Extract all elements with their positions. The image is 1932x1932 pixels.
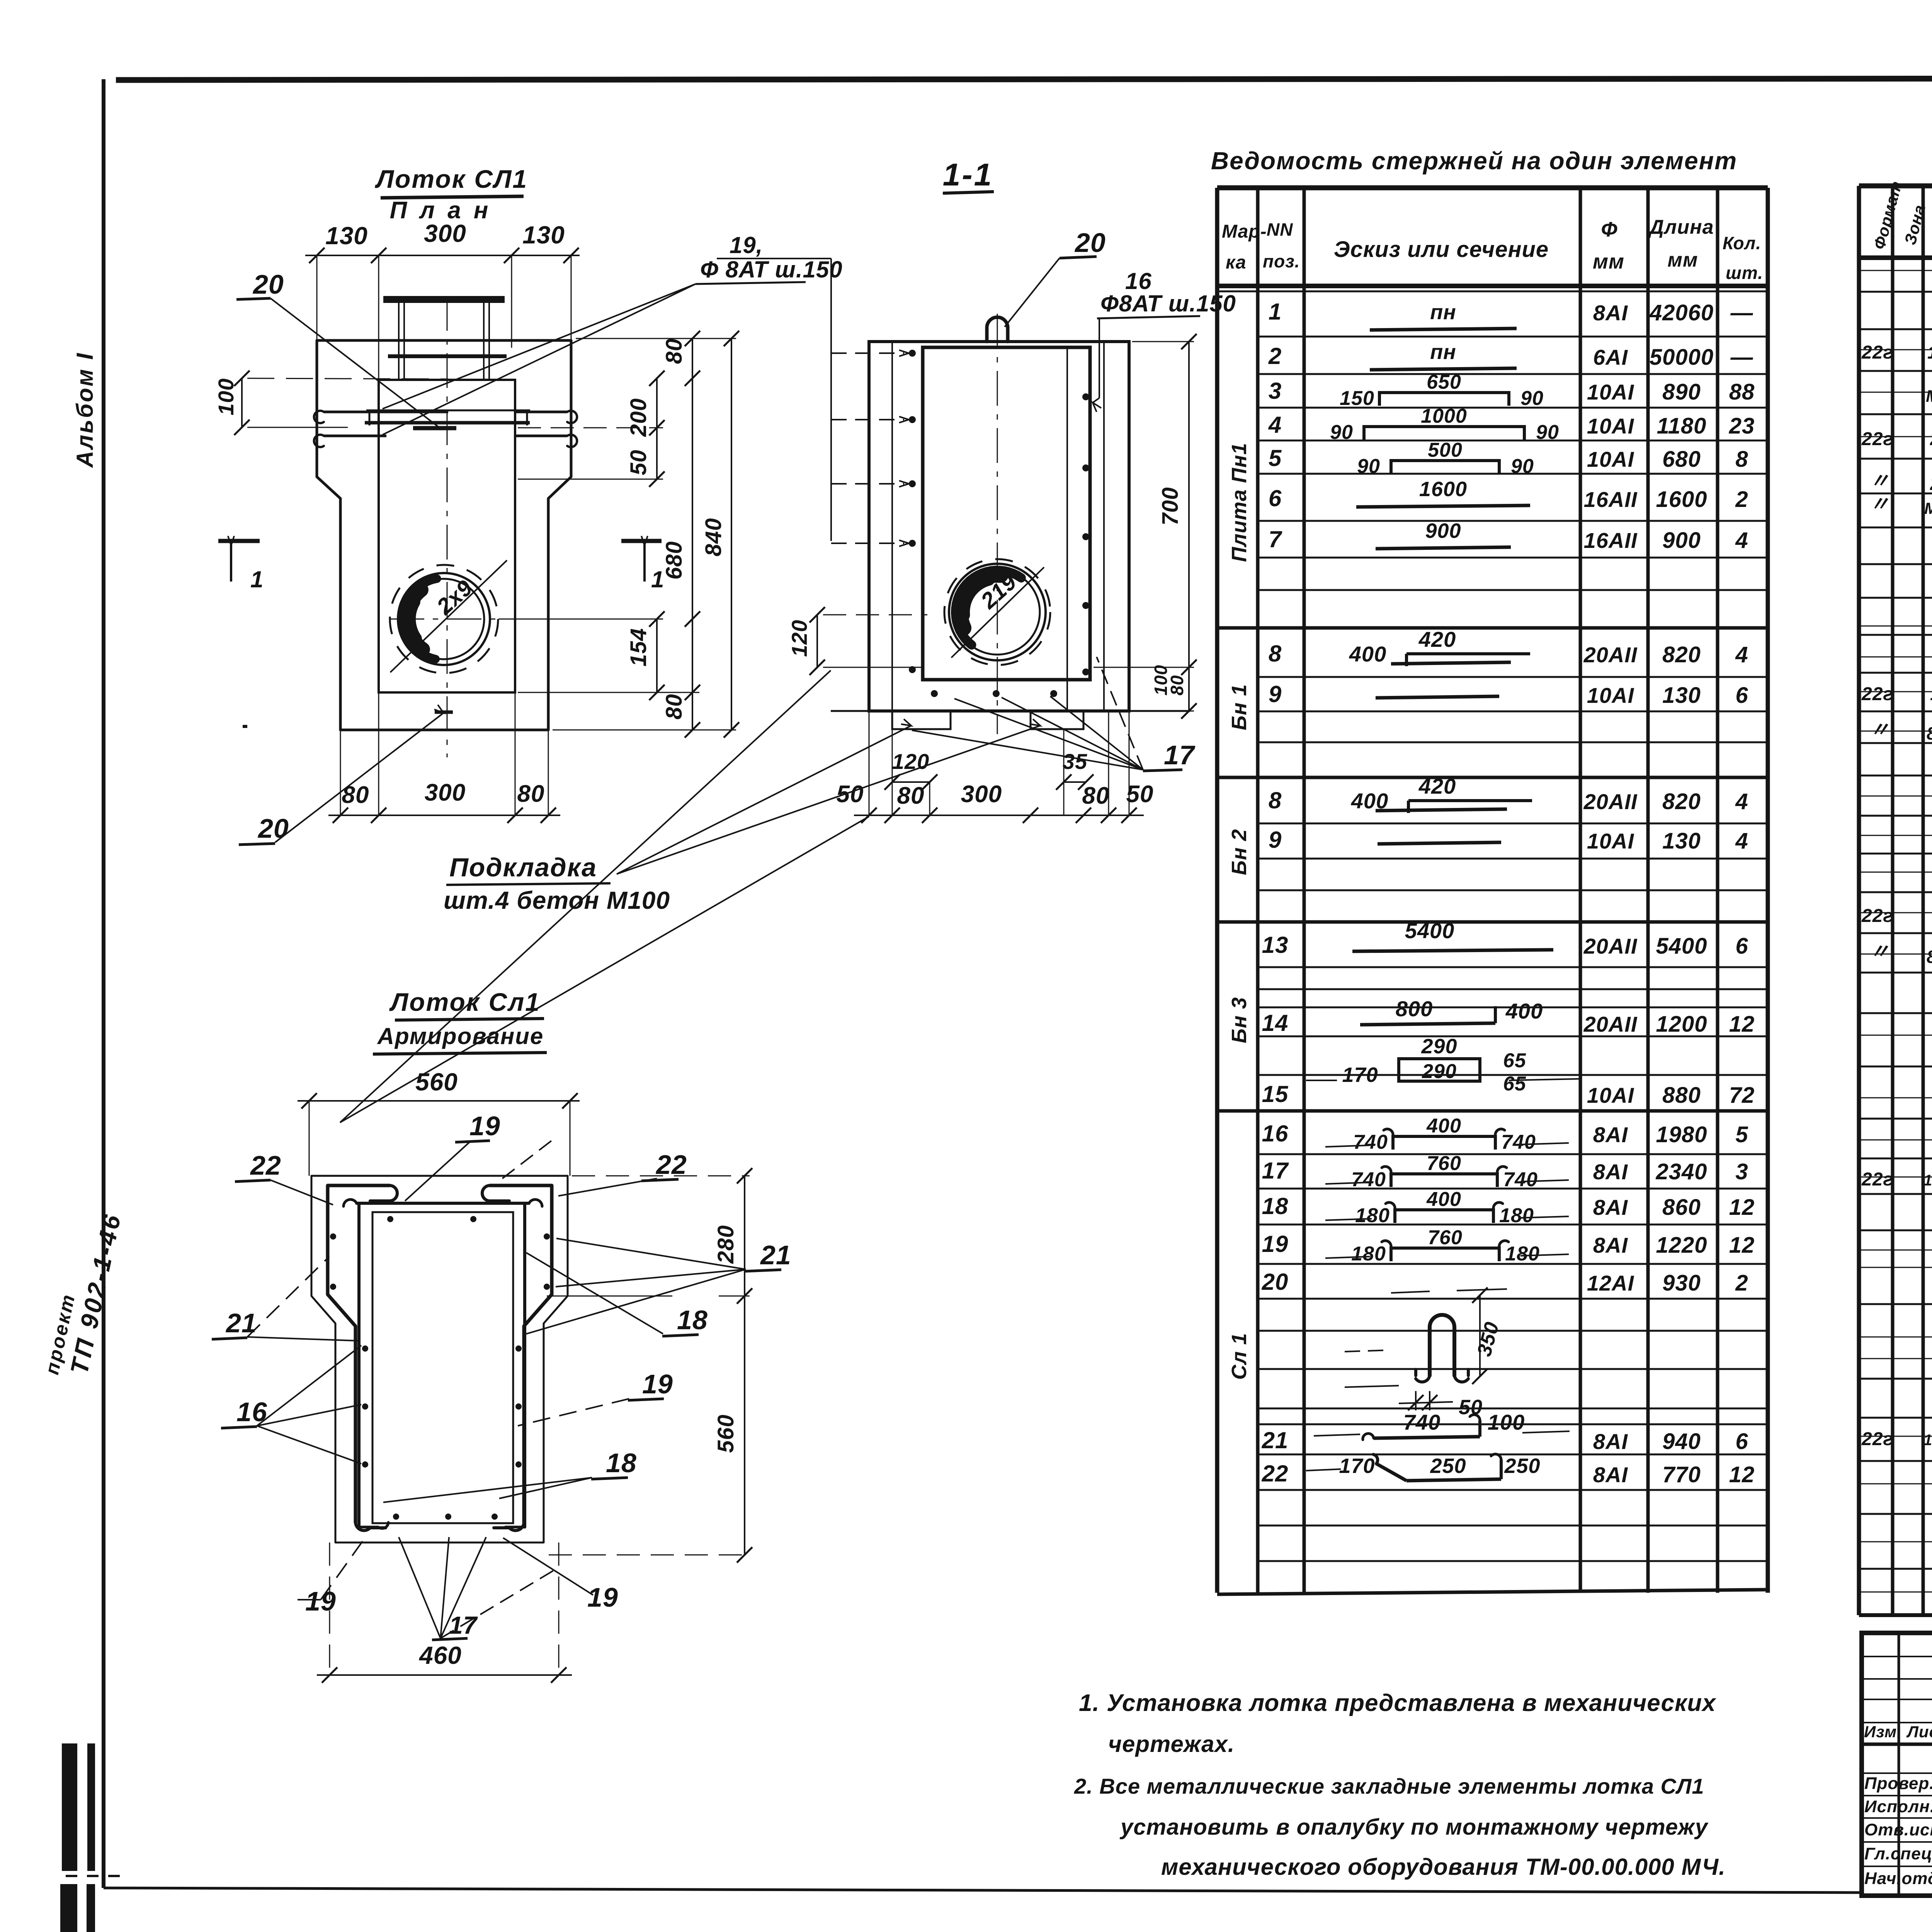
svg-text:18: 18 xyxy=(677,1305,708,1335)
svg-text:80: 80 xyxy=(662,694,687,719)
svg-text:12: 12 xyxy=(1729,1012,1755,1037)
svg-text:8АI: 8АI xyxy=(1593,1122,1628,1147)
svg-text:Плита Пн1: Плита Пн1 xyxy=(1228,443,1251,562)
svg-text:22г: 22г xyxy=(1861,429,1893,449)
svg-text:65: 65 xyxy=(1503,1073,1526,1095)
svg-text:22г: 22г xyxy=(1861,684,1893,704)
svg-text:90: 90 xyxy=(1536,421,1559,444)
svg-text:1600: 1600 xyxy=(1656,487,1707,512)
armature inner formwork rectangle xyxy=(372,1212,513,1523)
plan vertical centerline xyxy=(447,296,448,757)
svg-text:150: 150 xyxy=(1340,387,1374,410)
svg-text:5400: 5400 xyxy=(1656,934,1707,959)
svg-text:130: 130 xyxy=(1662,683,1701,708)
armature inner U-bar xyxy=(357,1202,529,1205)
svg-text:Ведомость стержней на один эле: Ведомость стержней на один элемент xyxy=(1211,147,1737,175)
plan opening horizontal centerline xyxy=(389,619,626,620)
svg-text:—: — xyxy=(1730,345,1753,370)
svg-text:80: 80 xyxy=(517,781,545,807)
left margin binding artifact marks xyxy=(62,1743,77,1871)
plan bracket legs xyxy=(398,303,400,380)
section right dim 700 xyxy=(1188,342,1190,667)
svg-text:930: 930 xyxy=(1662,1270,1701,1296)
svg-text:700: 700 xyxy=(1158,487,1183,526)
section left wall thin line xyxy=(891,342,893,711)
svg-text:Нач.отд.: Нач.отд. xyxy=(1864,1869,1932,1888)
svg-text:800: 800 xyxy=(1396,997,1433,1021)
svg-text:290: 290 xyxy=(1422,1060,1457,1083)
svg-text:420: 420 xyxy=(1418,774,1456,798)
bar schedule outer and column lines xyxy=(1217,185,1768,190)
svg-text:740: 740 xyxy=(1353,1131,1388,1153)
plan right rebar hooks xyxy=(515,411,567,413)
svg-text:20: 20 xyxy=(252,269,284,299)
svg-text:поз.: поз. xyxy=(1263,251,1300,271)
svg-text:20АII: 20АII xyxy=(1583,789,1638,814)
svg-text:19: 19 xyxy=(587,1582,618,1612)
svg-text:22: 22 xyxy=(655,1150,687,1180)
svg-text:2340: 2340 xyxy=(1655,1159,1707,1184)
svg-text:1: 1 xyxy=(1269,299,1282,325)
svg-text:10АI: 10АI xyxy=(1587,380,1634,404)
section bottom dimension 50-80-300-80-50 xyxy=(854,815,1144,816)
svg-text:560: 560 xyxy=(713,1414,738,1453)
svg-text:8АI: 8АI xyxy=(1593,1160,1628,1184)
svg-text:〃: 〃 xyxy=(1869,940,1890,963)
svg-text:пн: пн xyxy=(1430,301,1456,324)
armature outer U-bar right xyxy=(490,1185,552,1522)
svg-text:6: 6 xyxy=(1735,683,1748,708)
svg-text:МН14: МН14 xyxy=(1924,499,1932,517)
svg-text:мм: мм xyxy=(1593,250,1624,273)
svg-text:9: 9 xyxy=(1269,681,1282,707)
svg-text:100: 100 xyxy=(214,378,238,415)
svg-text:шт.4 бетон М100: шт.4 бетон М100 xyxy=(444,886,670,914)
svg-text:35: 35 xyxy=(1063,749,1087,774)
svg-text:400: 400 xyxy=(1505,999,1543,1023)
svg-text:80: 80 xyxy=(342,782,369,808)
plan far right dim 840 xyxy=(731,338,732,730)
svg-text:50000: 50000 xyxy=(1650,345,1714,370)
title block header row line xyxy=(1862,1743,1932,1746)
svg-text:18: 18 xyxy=(1262,1193,1289,1219)
svg-text:Бн 2: Бн 2 xyxy=(1228,829,1251,875)
svg-text:900: 900 xyxy=(1425,519,1461,543)
svg-text:16: 16 xyxy=(236,1397,267,1427)
svg-text:9: 9 xyxy=(1269,827,1282,853)
plan top dimension extension lines xyxy=(316,255,318,340)
plan section mark 1 right xyxy=(621,539,662,543)
svg-text:20: 20 xyxy=(1262,1269,1289,1295)
svg-text:10АI: 10АI xyxy=(1587,447,1634,471)
svg-text:Эскиз или сечение: Эскиз или сечение xyxy=(1334,237,1549,262)
svg-text:460: 460 xyxy=(418,1641,462,1669)
svg-text:280: 280 xyxy=(713,1225,738,1264)
svg-text:180: 180 xyxy=(1351,1243,1386,1265)
plan right dim chain 80-680-80 xyxy=(692,338,693,730)
svg-text:10АI: 10АI xyxy=(1587,414,1634,438)
svg-text:300: 300 xyxy=(961,781,1002,808)
section dim 120 left xyxy=(816,615,818,667)
svg-text:1180: 1180 xyxy=(1657,413,1707,439)
svg-text:8АI: 8АI xyxy=(1593,301,1628,325)
svg-text:400: 400 xyxy=(1426,1115,1461,1137)
plan right dim chain 154 xyxy=(656,619,658,692)
svg-text:420: 420 xyxy=(1418,627,1456,651)
svg-text:3: 3 xyxy=(1269,378,1282,404)
svg-text:80: 80 xyxy=(1167,675,1187,696)
svg-text:22г: 22г xyxy=(1861,906,1893,926)
svg-text:Армирование: Армирование xyxy=(377,1023,544,1049)
section right dims 100 80 xyxy=(1188,667,1190,711)
svg-text:Бн 1: Бн 1 xyxy=(1228,684,1251,730)
svg-text:4: 4 xyxy=(1735,642,1748,667)
svg-text:120: 120 xyxy=(787,620,811,657)
plan section mark 1 left xyxy=(218,539,260,543)
specification table outer and columns xyxy=(1859,184,1932,189)
plan outer body outline xyxy=(317,340,571,730)
svg-text:740: 740 xyxy=(1501,1131,1536,1153)
svg-text:13: 13 xyxy=(1262,932,1289,958)
svg-text:20: 20 xyxy=(1074,228,1106,258)
svg-text:8,9: 8,9 xyxy=(1927,723,1932,743)
svg-text:170: 170 xyxy=(1342,1063,1378,1087)
section opening dashed circle xyxy=(944,559,1050,665)
svg-text:2: 2 xyxy=(1268,343,1282,369)
svg-text:12: 12 xyxy=(1729,1462,1755,1487)
armature bottom hooks xyxy=(355,1522,386,1531)
svg-text:18: 18 xyxy=(606,1448,637,1478)
svg-text:22: 22 xyxy=(1262,1461,1289,1486)
svg-text:500: 500 xyxy=(1428,439,1463,461)
svg-text:900: 900 xyxy=(1662,528,1701,553)
svg-text:20АII: 20АII xyxy=(1583,1012,1638,1036)
svg-text:8: 8 xyxy=(1735,447,1748,472)
armature rebar dots xyxy=(330,1233,336,1240)
svg-text:20: 20 xyxy=(257,813,289,844)
svg-text:механического оборудования ТМ-: механического оборудования ТМ-00.00.000 … xyxy=(1161,1854,1726,1880)
specification table extra sub-row lines xyxy=(1859,270,1932,271)
svg-text:установить в опалубку по монта: установить в опалубку по монтажному черт… xyxy=(1119,1815,1709,1840)
svg-text:1: 1 xyxy=(250,566,264,592)
svg-text:Сл 1: Сл 1 xyxy=(1228,1333,1251,1380)
svg-text:1-1: 1-1 xyxy=(943,157,993,192)
svg-text:16: 16 xyxy=(1262,1121,1289,1146)
svg-text:19: 19 xyxy=(1262,1231,1289,1257)
bar schedule section divider lines xyxy=(1217,626,1768,630)
svg-text:740: 740 xyxy=(1351,1168,1386,1191)
svg-text:760: 760 xyxy=(1427,1152,1461,1175)
svg-text:4: 4 xyxy=(1735,789,1748,814)
title block outer frame xyxy=(1862,1633,1932,1896)
svg-text:940: 940 xyxy=(1662,1429,1701,1454)
svg-text:1÷7: 1÷7 xyxy=(1927,342,1932,362)
svg-text:Изм.: Изм. xyxy=(1864,1723,1902,1741)
svg-text:88: 88 xyxy=(1729,379,1755,405)
svg-text:50: 50 xyxy=(837,781,864,808)
svg-text:8: 8 xyxy=(1269,787,1282,813)
svg-text:14: 14 xyxy=(1262,1010,1289,1036)
svg-text:5400: 5400 xyxy=(1405,918,1455,943)
svg-text:20: 20 xyxy=(1930,429,1932,449)
section left rebar dots xyxy=(909,350,916,357)
svg-text:5: 5 xyxy=(1269,445,1282,471)
svg-text:2. Все металлические закладные: 2. Все металлические закладные элементы … xyxy=(1074,1774,1704,1798)
armature right dim chain 280-560 xyxy=(744,1176,745,1555)
svg-text:Исполн.: Исполн. xyxy=(1864,1797,1932,1816)
svg-text:Провер.: Провер. xyxy=(1864,1774,1932,1793)
page frame top border xyxy=(116,78,1932,80)
svg-text:1. Установка лотка представлен: 1. Установка лотка представлена в механи… xyxy=(1079,1690,1716,1716)
plan top bracket plate xyxy=(383,296,505,303)
svg-text:Лоток Сл1: Лоток Сл1 xyxy=(389,988,541,1016)
svg-text:22г: 22г xyxy=(1861,342,1893,363)
plan left dim 100 xyxy=(241,378,243,427)
svg-text:760: 760 xyxy=(1428,1226,1463,1249)
svg-text:8АI: 8АI xyxy=(1593,1195,1628,1219)
plan opening diameter line and label xyxy=(390,560,507,672)
armature top dim 560 xyxy=(298,1100,580,1102)
svg-text:740: 740 xyxy=(1403,1410,1440,1434)
svg-text:мм: мм xyxy=(1668,249,1698,271)
svg-text:8: 8 xyxy=(1269,641,1282,667)
plan opening inner circle xyxy=(404,579,484,659)
svg-text:〃: 〃 xyxy=(1869,493,1890,515)
svg-text:820: 820 xyxy=(1662,642,1701,667)
svg-text:650: 650 xyxy=(1427,371,1461,393)
svg-text:8АI: 8АI xyxy=(1593,1463,1628,1487)
svg-text:12: 12 xyxy=(1729,1233,1755,1258)
plan opening dark crescent xyxy=(403,579,437,659)
svg-text:770: 770 xyxy=(1662,1462,1701,1487)
plan embedded bar line xyxy=(365,421,530,425)
svg-text:3: 3 xyxy=(1735,1159,1748,1184)
plan inner shaft rectangle xyxy=(379,380,515,692)
svg-text:200: 200 xyxy=(626,398,651,437)
svg-text:13÷15: 13÷15 xyxy=(1923,1172,1932,1189)
svg-text:1600: 1600 xyxy=(1419,478,1467,501)
svg-text:680: 680 xyxy=(662,541,687,580)
svg-text:〃: 〃 xyxy=(1869,719,1890,741)
plan opening outer circle xyxy=(398,573,490,665)
plan collar plates xyxy=(366,410,530,412)
svg-text:6: 6 xyxy=(1735,934,1748,959)
svg-text:МН7: МН7 xyxy=(1926,387,1932,406)
svg-text:Подкладка: Подкладка xyxy=(449,853,597,882)
svg-text:〃: 〃 xyxy=(1869,470,1890,492)
svg-text:2: 2 xyxy=(1735,487,1748,512)
plan opening dashed circle xyxy=(390,565,498,673)
svg-text:19: 19 xyxy=(642,1369,673,1399)
svg-text:180: 180 xyxy=(1355,1204,1390,1227)
armature outer concrete outline xyxy=(311,1176,568,1543)
svg-text:400: 400 xyxy=(1351,789,1388,813)
title block left section columns xyxy=(1898,1633,1900,1896)
svg-text:19: 19 xyxy=(305,1586,336,1616)
svg-text:10АI: 10АI xyxy=(1587,683,1634,707)
section opening diameter line xyxy=(951,567,1044,658)
svg-text:820: 820 xyxy=(1662,789,1701,814)
svg-text:4: 4 xyxy=(1268,412,1282,438)
svg-text:21: 21 xyxy=(1262,1427,1289,1453)
specification table row lines xyxy=(1859,291,1932,293)
svg-text:22г: 22г xyxy=(1861,1169,1893,1190)
svg-text:300: 300 xyxy=(424,219,466,247)
svg-text:6: 6 xyxy=(1269,485,1282,511)
svg-text:80: 80 xyxy=(662,338,687,364)
svg-text:Длина: Длина xyxy=(1648,216,1714,238)
armature bottom dim 460 xyxy=(317,1674,572,1676)
svg-text:680: 680 xyxy=(1662,447,1701,472)
svg-text:890: 890 xyxy=(1662,379,1701,405)
svg-text:Кол.: Кол. xyxy=(1723,233,1761,253)
svg-text:22: 22 xyxy=(250,1150,281,1180)
section opening outer circle xyxy=(949,564,1046,660)
svg-text:ка: ка xyxy=(1226,252,1247,273)
svg-text:50: 50 xyxy=(1126,781,1154,808)
svg-text:4: 4 xyxy=(1735,828,1748,854)
svg-text:Ф: Ф xyxy=(1601,218,1617,241)
svg-text:154: 154 xyxy=(626,628,651,667)
svg-text:840: 840 xyxy=(701,518,726,556)
svg-text:21: 21 xyxy=(1930,474,1932,494)
svg-text:21: 21 xyxy=(760,1240,791,1270)
section right rebar dots xyxy=(1082,393,1089,400)
svg-text:1000: 1000 xyxy=(1421,405,1467,427)
armature outer U-bar left xyxy=(328,1185,389,1522)
svg-text:120: 120 xyxy=(892,749,929,774)
svg-text:10: 10 xyxy=(1930,684,1932,704)
svg-text:17: 17 xyxy=(1164,740,1196,770)
svg-text:16÷22: 16÷22 xyxy=(1923,1432,1932,1449)
svg-text:860: 860 xyxy=(1662,1195,1701,1220)
svg-text:19,: 19, xyxy=(730,232,763,258)
svg-text:8АI: 8АI xyxy=(1593,1429,1628,1454)
svg-text:23: 23 xyxy=(1729,413,1755,439)
plan top dimension line 130-300-130 xyxy=(305,255,580,256)
svg-text:6АI: 6АI xyxy=(1593,345,1628,369)
svg-text:7: 7 xyxy=(1269,526,1282,552)
svg-text:65: 65 xyxy=(1503,1049,1526,1072)
svg-text:20АII: 20АII xyxy=(1583,934,1638,958)
plan bracket center pad xyxy=(413,426,456,430)
title block left thin revision rows xyxy=(1862,1656,1932,1657)
svg-text:90: 90 xyxy=(1330,421,1353,444)
section vertical centerline xyxy=(997,314,998,734)
svg-text:180: 180 xyxy=(1505,1243,1540,1265)
svg-text:290: 290 xyxy=(1421,1035,1457,1058)
svg-text:17: 17 xyxy=(1262,1158,1289,1184)
plan right inner dim chain 200-50 xyxy=(656,378,658,479)
svg-text:12АI: 12АI xyxy=(1587,1271,1634,1295)
svg-text:250: 250 xyxy=(1430,1454,1466,1478)
svg-text:560: 560 xyxy=(415,1068,458,1096)
page frame left border xyxy=(102,79,105,1888)
svg-text:50: 50 xyxy=(626,449,651,475)
svg-text:130: 130 xyxy=(522,221,565,249)
svg-text:1220: 1220 xyxy=(1656,1233,1707,1258)
long cross leaders to plan bottom xyxy=(340,670,831,1122)
svg-text:6: 6 xyxy=(1735,1429,1748,1454)
plan left rebar hooks xyxy=(324,411,448,413)
svg-text:80: 80 xyxy=(1082,782,1110,809)
svg-text:10АI: 10АI xyxy=(1587,829,1634,853)
podkladka leader lines xyxy=(617,726,911,874)
svg-text:400: 400 xyxy=(1426,1188,1461,1211)
svg-text:—: — xyxy=(1730,300,1753,325)
svg-text:NN: NN xyxy=(1267,219,1293,240)
section lifting handle xyxy=(987,317,1008,342)
section opening dark crescent xyxy=(956,570,1021,645)
svg-text:80: 80 xyxy=(897,782,925,809)
section rebar callout grid 19 xyxy=(830,259,832,541)
section right wall thin lines xyxy=(1066,347,1068,711)
svg-text:90: 90 xyxy=(1520,387,1544,410)
svg-text:300: 300 xyxy=(425,779,466,806)
svg-text:130: 130 xyxy=(325,222,368,250)
section bottom sub-dims 120 and 35 xyxy=(892,781,930,783)
svg-text:Гл.спец.: Гл.спец. xyxy=(1864,1844,1932,1863)
svg-text:Лоток СЛ1: Лоток СЛ1 xyxy=(375,165,528,193)
svg-text:Мар-: Мар- xyxy=(1222,221,1267,242)
svg-text:4: 4 xyxy=(1735,528,1748,553)
svg-text:16: 16 xyxy=(1125,268,1152,294)
svg-text:90: 90 xyxy=(1357,455,1380,478)
svg-text:16АII: 16АII xyxy=(1584,487,1638,512)
section outer rectangle xyxy=(869,342,1129,711)
svg-text:100: 100 xyxy=(1488,1410,1525,1434)
svg-text:740: 740 xyxy=(1503,1168,1538,1191)
svg-text:15: 15 xyxy=(1262,1081,1289,1107)
svg-text:180: 180 xyxy=(1499,1204,1534,1227)
svg-text:шт.: шт. xyxy=(1726,263,1763,283)
svg-text:5: 5 xyxy=(1735,1122,1748,1147)
svg-text:21: 21 xyxy=(225,1308,257,1338)
svg-text:1980: 1980 xyxy=(1656,1122,1707,1147)
svg-text:1200: 1200 xyxy=(1656,1012,1707,1037)
svg-text:Альбом I: Альбом I xyxy=(72,352,98,468)
svg-text:2: 2 xyxy=(1735,1270,1748,1296)
plan bracket crossbar xyxy=(388,354,507,358)
svg-text:130: 130 xyxy=(1662,828,1701,854)
plan bottom dim extension lines xyxy=(340,730,341,815)
svg-text:Лист: Лист xyxy=(1906,1723,1932,1741)
svg-text:12: 12 xyxy=(1729,1195,1755,1220)
svg-text:16АII: 16АII xyxy=(1584,528,1638,553)
svg-text:20АII: 20АII xyxy=(1583,643,1638,667)
svg-text:42060: 42060 xyxy=(1649,300,1714,325)
section base line and pads xyxy=(831,710,1190,712)
title block signature rows xyxy=(1862,1772,1932,1774)
svg-text:пн: пн xyxy=(1430,340,1456,364)
svg-text:8,9: 8,9 xyxy=(1927,947,1932,967)
svg-text:19: 19 xyxy=(469,1111,500,1141)
svg-text:10АI: 10АI xyxy=(1587,1083,1634,1107)
plan rebar callout leaders xyxy=(383,284,696,409)
svg-text:8АI: 8АI xyxy=(1593,1233,1628,1257)
page frame bottom border xyxy=(104,1888,1863,1893)
svg-text:170: 170 xyxy=(1339,1454,1375,1478)
bar schedule row lines xyxy=(1258,336,1768,338)
svg-text:Отв.исп.: Отв.исп. xyxy=(1864,1820,1932,1839)
section opening inner circle xyxy=(955,570,1040,655)
svg-text:880: 880 xyxy=(1662,1083,1701,1108)
plan bottom dimension line 80-300-80 xyxy=(328,815,560,816)
svg-text:250: 250 xyxy=(1504,1454,1540,1478)
svg-text:чертежах.: чертежах. xyxy=(1108,1731,1235,1757)
svg-text:400: 400 xyxy=(1349,642,1386,666)
svg-text:Ф 8АТ ш.150: Ф 8АТ ш.150 xyxy=(700,257,843,282)
